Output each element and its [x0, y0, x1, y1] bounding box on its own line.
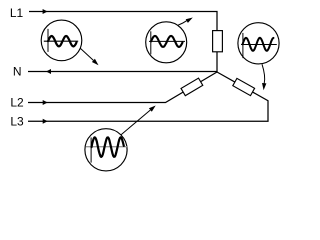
svg-text:L2: L2 [10, 96, 24, 110]
svg-text:L3: L3 [10, 115, 24, 129]
svg-text:L1: L1 [10, 6, 24, 20]
svg-text:N: N [13, 65, 22, 79]
